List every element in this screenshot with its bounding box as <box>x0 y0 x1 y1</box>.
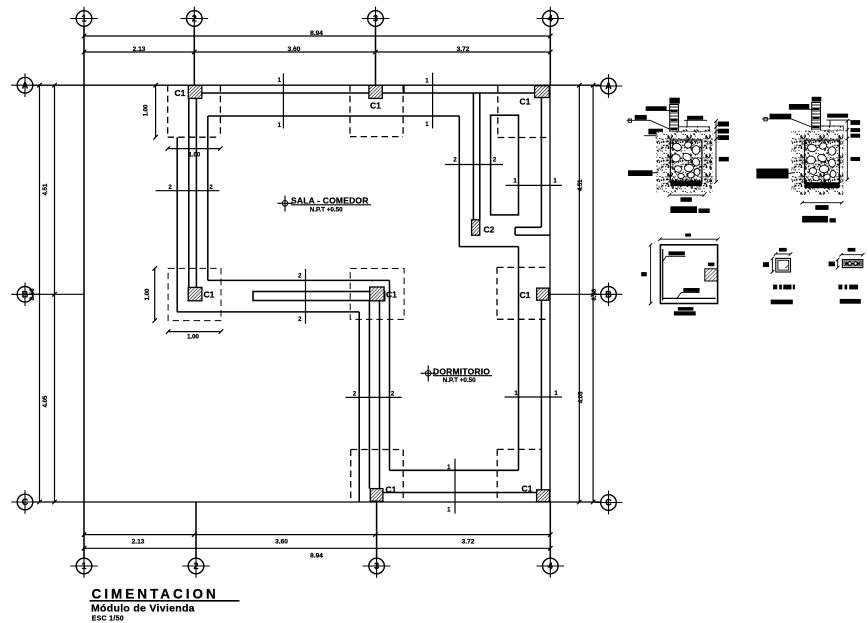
right wall notch <box>515 226 541 228</box>
axis circle 3 bottom <box>363 554 391 578</box>
section 1-1 cut at right wall upper <box>506 184 562 186</box>
footing square bottom right (dashed) <box>496 449 498 501</box>
svg-text:1: 1 <box>81 14 86 24</box>
room label SALA - COMEDOR <box>278 196 372 214</box>
svg-text:8.56: 8.56 <box>592 288 598 300</box>
svg-text:C: C <box>22 497 29 507</box>
svg-text:C1: C1 <box>520 97 531 107</box>
right dimension column inner spans <box>592 85 594 502</box>
axis 1 vertical line <box>83 27 85 503</box>
section 1-1 cut at right wall lower <box>505 396 562 398</box>
svg-text:8.56: 8.56 <box>30 288 36 300</box>
axis 2 vertical line <box>193 27 195 86</box>
svg-text:2: 2 <box>192 14 197 24</box>
svg-text:3: 3 <box>373 14 378 24</box>
svg-text:B: B <box>605 290 612 300</box>
svg-text:C1: C1 <box>204 290 215 300</box>
column C1 axis2 top <box>188 85 202 98</box>
axis 3 vertical line <box>375 27 377 86</box>
footing dim vertical 1.00 axisB-left <box>154 268 156 320</box>
right wall outer face <box>549 85 551 502</box>
axis B wall foundation south edge <box>177 311 359 313</box>
foundation edge vertical at sala east <box>458 116 460 247</box>
svg-text:1.00: 1.00 <box>145 288 151 300</box>
svg-text:C1: C1 <box>386 290 397 300</box>
lower vertical wall foundation east edge <box>389 280 391 470</box>
column section detail C1 <box>763 248 795 304</box>
bottom dimension row 1 spans <box>84 534 550 536</box>
partition wall east face <box>479 93 481 220</box>
svg-text:A: A <box>22 80 29 90</box>
axis circle C right <box>595 491 623 515</box>
foundation section detail 2 <box>756 97 860 223</box>
footing dim horizontal 1.00 axisB-left <box>168 331 221 333</box>
footing square axisB middle (dashed) <box>350 269 404 320</box>
axis B wall sobrecimiento rectangle <box>253 292 385 301</box>
column C1 axis4 top <box>535 86 550 98</box>
left dimension column outer total <box>39 85 41 502</box>
top dimension row 2 spans <box>84 51 550 53</box>
svg-text:C1: C1 <box>370 101 381 111</box>
svg-text:2.13: 2.13 <box>132 538 145 545</box>
axis circle 2 bottom <box>182 554 210 578</box>
svg-text:3: 3 <box>374 561 379 571</box>
lower vertical wall foundation west edge <box>358 312 360 502</box>
column C1 axisB right <box>537 288 549 300</box>
section 2-2 cut at lower wall <box>346 396 402 398</box>
lower vertical wall face west <box>368 301 370 489</box>
lower vertical wall face east <box>379 301 381 489</box>
svg-text:3.72: 3.72 <box>462 538 475 545</box>
top wall inner face <box>202 92 535 94</box>
column C2 partition end <box>472 220 480 235</box>
axis circle 2 top <box>181 7 209 31</box>
section 1-1 cut at bottom wall <box>454 459 456 514</box>
bottom wall inner face <box>383 492 537 494</box>
svg-text:Módulo de Vivienda: Módulo de Vivienda <box>91 603 195 615</box>
closet rectangle <box>491 115 519 215</box>
axis circle B left <box>11 283 39 307</box>
section 2-2 cut at partition <box>445 164 503 166</box>
axis circle 1 bottom <box>70 554 98 578</box>
svg-text:C1: C1 <box>522 484 533 494</box>
footing square axis2 top (dashed) <box>167 85 169 137</box>
svg-text:C: C <box>605 498 612 508</box>
axis circle 4 bottom <box>537 554 565 578</box>
svg-text:2: 2 <box>193 561 198 571</box>
footing dim vertical 1.00 top-left <box>155 85 157 137</box>
axis circle 1 top <box>70 7 98 31</box>
axis circle C left <box>11 490 39 514</box>
svg-text:4: 4 <box>548 561 553 571</box>
svg-text:C1: C1 <box>175 88 186 98</box>
partition wall west face <box>472 93 474 220</box>
closet-strip top edge <box>459 246 518 248</box>
column C1 axisB middle <box>370 287 384 301</box>
right wall inner face lower <box>540 301 542 490</box>
right wall inner face upper <box>540 98 542 228</box>
axis A horizontal line / top wall outer face <box>33 84 601 86</box>
footing square axisB left (dashed) <box>168 268 221 320</box>
svg-text:3.60: 3.60 <box>288 46 301 53</box>
axis circle A left <box>11 73 39 97</box>
svg-text:3.60: 3.60 <box>275 538 288 545</box>
footing square axis3 top (dashed) <box>349 85 351 136</box>
left wall face west <box>188 98 190 287</box>
svg-text:1: 1 <box>81 561 86 571</box>
section 2-2 cut at axis B wall <box>305 269 307 324</box>
svg-text:1.00: 1.00 <box>189 153 201 159</box>
svg-text:1.00: 1.00 <box>144 104 150 116</box>
footing square axis4 top (dashed) <box>497 86 499 138</box>
bottom dimension row 2 total 8.94 <box>84 547 550 549</box>
svg-text:8.94: 8.94 <box>310 553 323 560</box>
left dimension column inner spans <box>54 85 56 502</box>
left wall foundation outer edge <box>176 137 178 312</box>
axis B horizontal line right stub <box>549 293 601 295</box>
axis B horizontal line left stub <box>33 293 85 295</box>
column C1 bottom middle <box>370 489 383 502</box>
top dimension row 1 total 8.94 <box>84 35 550 37</box>
room label DORMITORIO <box>421 366 492 384</box>
column C1 axisB left <box>188 287 202 300</box>
axis circle B right <box>595 283 623 307</box>
footing dim horizontal 1.00 top-left <box>168 148 221 150</box>
section 2-2 cut at left wall <box>156 190 220 192</box>
left wall foundation inner edge <box>207 116 209 280</box>
svg-text:1.00: 1.00 <box>187 334 199 340</box>
svg-text:DORMITORIO: DORMITORIO <box>433 367 490 377</box>
svg-text:3.72: 3.72 <box>457 46 470 53</box>
svg-text:2.13: 2.13 <box>133 46 146 53</box>
top wall foundation inner edge <box>208 115 459 117</box>
svg-text:4: 4 <box>548 14 553 24</box>
svg-text:B: B <box>22 290 29 300</box>
svg-text:4.51: 4.51 <box>43 183 49 195</box>
column section detail C2 <box>829 248 865 304</box>
axis C horizontal line / bottom boundary <box>33 501 601 503</box>
axis circle 4 top <box>537 7 565 31</box>
svg-text:A: A <box>605 81 612 91</box>
footing square bottom middle (dashed) <box>350 450 352 502</box>
svg-text:8.94: 8.94 <box>310 30 323 37</box>
left wall face east <box>195 98 197 287</box>
svg-text:ESC 1/50: ESC 1/50 <box>92 616 124 623</box>
footing plan detail Z-1 <box>641 234 719 316</box>
top wall door jamb <box>403 85 405 93</box>
column C1 bottom right <box>537 490 550 502</box>
svg-text:4.51: 4.51 <box>578 179 584 191</box>
column C1 axis3 top <box>369 85 382 98</box>
axis circle 3 top <box>362 7 390 31</box>
right dimension column outer <box>578 85 580 502</box>
footing square axisB right (dashed) <box>496 267 498 319</box>
axis B wall foundation north edge <box>208 279 390 281</box>
section 1-1 cut at top wall right <box>432 73 434 129</box>
svg-text:4.05: 4.05 <box>578 391 584 403</box>
svg-text:C1: C1 <box>520 290 531 300</box>
svg-text:4.05: 4.05 <box>43 395 49 407</box>
axis circle A right <box>595 74 623 98</box>
svg-text:N.P.T +0.50: N.P.T +0.50 <box>443 377 476 384</box>
closet-strip west edge <box>518 247 520 471</box>
bottom wall foundation inner edge <box>390 469 519 471</box>
axis 4 vertical line <box>549 27 551 86</box>
section 1-1 cut at top wall left <box>282 73 284 128</box>
svg-text:N.P.T +0.50: N.P.T +0.50 <box>310 207 343 214</box>
svg-text:C1: C1 <box>386 485 397 495</box>
svg-text:C2: C2 <box>484 225 495 235</box>
foundation section detail 1 <box>627 98 729 213</box>
svg-text:CIMENTACION: CIMENTACION <box>92 587 219 602</box>
